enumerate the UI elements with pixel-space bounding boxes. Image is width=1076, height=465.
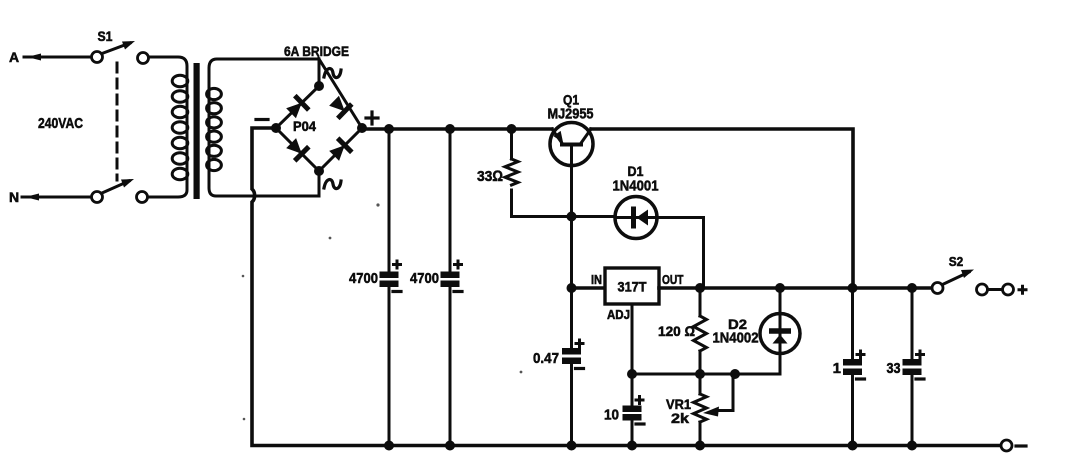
svg-text:6A BRIDGE: 6A BRIDGE [284, 43, 349, 59]
svg-text:4700: 4700 [410, 270, 439, 287]
svg-text:S1: S1 [98, 28, 113, 44]
svg-text:1N4001: 1N4001 [613, 178, 659, 195]
svg-text:ADJ: ADJ [607, 307, 630, 322]
svg-text:4700: 4700 [349, 270, 378, 287]
svg-text:33: 33 [887, 360, 901, 377]
svg-text:0.47: 0.47 [533, 350, 559, 367]
svg-text:1N4002: 1N4002 [713, 330, 759, 347]
svg-text:2k: 2k [671, 410, 689, 426]
svg-text:33Ω: 33Ω [477, 168, 503, 185]
svg-text:MJ2955: MJ2955 [548, 106, 594, 123]
svg-text:A: A [9, 49, 19, 65]
svg-text:OUT: OUT [662, 272, 684, 287]
svg-text:P04: P04 [293, 118, 316, 134]
svg-text:120 Ω: 120 Ω [658, 323, 695, 339]
svg-text:240VAC: 240VAC [38, 115, 83, 132]
svg-text:N: N [9, 189, 19, 205]
svg-text:10: 10 [604, 407, 619, 424]
svg-text:1: 1 [833, 360, 841, 377]
svg-text:S2: S2 [949, 254, 964, 269]
svg-text:317T: 317T [618, 279, 647, 295]
svg-text:IN: IN [591, 272, 602, 287]
